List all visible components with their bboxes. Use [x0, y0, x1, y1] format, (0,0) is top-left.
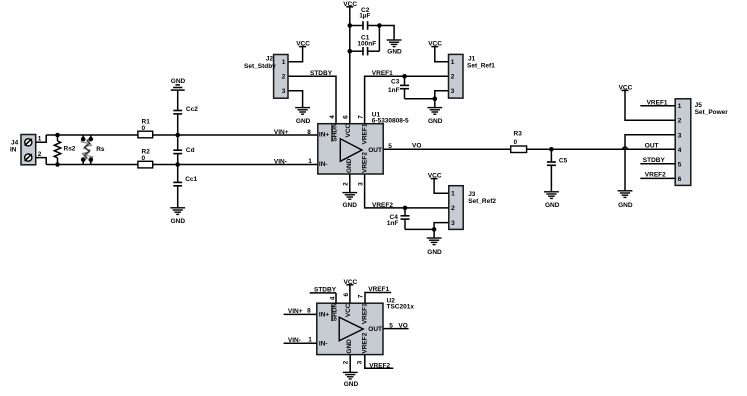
- svg-text:VREF2: VREF2: [645, 171, 666, 178]
- svg-text:1: 1: [678, 103, 682, 110]
- wire J4 pin 2: [36, 158, 47, 165]
- svg-text:2: 2: [678, 118, 682, 125]
- wire VCC to J1 pin1: [435, 47, 449, 62]
- svg-text:3: 3: [282, 88, 286, 95]
- node junction C5: [549, 147, 554, 152]
- node junction: [432, 227, 437, 232]
- wire VREF2 from U1 pin3 to J3 pin2: [365, 174, 449, 208]
- connector J4: [10, 135, 36, 165]
- svg-text:3: 3: [451, 88, 455, 95]
- svg-text:2: 2: [451, 74, 455, 81]
- svg-text:0: 0: [514, 139, 518, 146]
- wire to ground: [177, 186, 179, 208]
- capacitor C2: [350, 7, 380, 30]
- svg-text:VIN-: VIN-: [288, 337, 301, 344]
- ground U2: [343, 372, 359, 387]
- connector J1: [449, 54, 496, 98]
- svg-text:2: 2: [282, 74, 286, 81]
- svg-text:5: 5: [389, 322, 393, 329]
- svg-text:GND: GND: [545, 202, 560, 209]
- wire J5 pin3 to gnd: [625, 135, 675, 191]
- svg-text:6: 6: [343, 293, 350, 297]
- ground J1: [427, 108, 442, 125]
- svg-text:GND: GND: [343, 202, 358, 209]
- svg-text:2: 2: [343, 360, 350, 364]
- svg-text:GND: GND: [171, 218, 186, 225]
- svg-text:GND: GND: [346, 339, 353, 354]
- svg-text:6: 6: [343, 115, 350, 119]
- svg-text:Cd: Cd: [186, 147, 195, 154]
- wire U1 GND pin to ground: [349, 174, 351, 193]
- wire STDBY net J2 pin2 to U1 SHDN: [288, 76, 336, 123]
- resistor Rs2: [54, 133, 76, 167]
- wire J3 pin3: [434, 223, 449, 238]
- svg-text:GND: GND: [344, 381, 359, 388]
- wire J2 pin3 to gnd: [288, 91, 303, 108]
- svg-text:IN-: IN-: [319, 341, 328, 348]
- ground J3: [427, 238, 442, 256]
- svg-text:4: 4: [329, 296, 336, 300]
- wire VREF1 from U1 pin7 to J1 pin2: [365, 76, 449, 123]
- power VCC J3: [428, 173, 442, 180]
- power VCC top: [343, 1, 357, 8]
- node junction C3 top: [402, 74, 407, 79]
- svg-text:8: 8: [307, 129, 311, 136]
- power VCC J5: [619, 84, 633, 91]
- svg-text:VREF1: VREF1: [368, 286, 389, 293]
- ground C5: [544, 192, 560, 209]
- resistor R1: [138, 119, 153, 138]
- ground (C1/C2): [387, 40, 402, 55]
- svg-text:GND: GND: [346, 158, 353, 173]
- wire VCC down to U1 pin 6: [349, 7, 351, 124]
- svg-text:STDBY: STDBY: [310, 70, 333, 77]
- capacitor C1: [350, 34, 380, 55]
- wire Cc2 vertical: [177, 90, 179, 110]
- resistor Rs (4-terminal sense): [81, 135, 105, 165]
- svg-text:6-5330808-5: 6-5330808-5: [372, 118, 409, 125]
- svg-text:GND: GND: [296, 118, 311, 125]
- wire J4 pin 1: [36, 135, 47, 142]
- connector J2: [244, 55, 288, 99]
- svg-text:VREF1: VREF1: [372, 70, 393, 77]
- svg-text:J1: J1: [468, 56, 476, 63]
- wire U1 OUT to R3: [383, 148, 511, 150]
- connector J3: [449, 186, 497, 230]
- wire J5 pin1 VREF1: [640, 105, 675, 107]
- wire: [177, 154, 179, 183]
- node junction top wire: [175, 133, 180, 138]
- svg-text:IN+: IN+: [319, 132, 330, 139]
- wire VIN- bottom: [46, 164, 318, 166]
- svg-text:1: 1: [451, 59, 455, 66]
- wire U2 GND pin: [349, 355, 351, 373]
- svg-text:OUT: OUT: [645, 143, 659, 150]
- node junctions: [348, 23, 353, 28]
- svg-text:OUT: OUT: [368, 147, 382, 154]
- svg-text:OUT: OUT: [368, 326, 382, 333]
- net stub VO out: [383, 322, 409, 329]
- svg-text:VREF2: VREF2: [362, 152, 369, 173]
- svg-text:100nF: 100nF: [357, 41, 376, 48]
- ground U1: [342, 193, 357, 209]
- svg-text:4: 4: [329, 115, 336, 119]
- node junction: [433, 96, 438, 101]
- svg-text:STDBY: STDBY: [643, 157, 666, 164]
- svg-text:3: 3: [358, 182, 365, 186]
- svg-text:GND: GND: [618, 202, 633, 209]
- svg-text:GND: GND: [428, 118, 443, 125]
- svg-text:IN-: IN-: [319, 161, 328, 168]
- svg-text:1: 1: [451, 191, 455, 198]
- wire: [177, 114, 179, 150]
- svg-text:6: 6: [678, 176, 682, 183]
- capacitor C5: [547, 149, 568, 192]
- capacitor Cc2: [173, 106, 198, 114]
- net stub VIN-: [284, 336, 317, 343]
- svg-text:VREF1: VREF1: [647, 99, 668, 106]
- wire right vertical joining C1 C2: [378, 26, 380, 52]
- svg-text:1: 1: [308, 158, 312, 165]
- svg-text:1nF: 1nF: [388, 87, 400, 94]
- ground J2: [295, 108, 310, 125]
- svg-text:0: 0: [142, 125, 146, 132]
- op-amp U1: [318, 111, 409, 174]
- svg-text:Set_Ref2: Set_Ref2: [468, 198, 496, 205]
- svg-text:3: 3: [357, 360, 364, 364]
- svg-text:STDBY: STDBY: [314, 286, 337, 293]
- svg-text:VREF1: VREF1: [362, 303, 369, 324]
- svg-text:GND: GND: [171, 78, 186, 85]
- wire VCC to J2 pin1: [288, 47, 303, 62]
- resistor R3: [511, 131, 527, 153]
- svg-text:3: 3: [451, 220, 455, 227]
- svg-text:VO: VO: [398, 322, 407, 329]
- svg-text:J3: J3: [468, 191, 476, 198]
- svg-text:Rs2: Rs2: [64, 146, 76, 153]
- svg-text:1: 1: [38, 135, 42, 142]
- capacitor Cc1: [173, 176, 197, 186]
- svg-text:VCC: VCC: [345, 303, 352, 317]
- wire VIN+ top: [46, 134, 318, 136]
- svg-text:1: 1: [308, 336, 312, 343]
- svg-text:Cc1: Cc1: [185, 176, 197, 183]
- svg-text:1nF: 1nF: [387, 220, 399, 227]
- svg-text:VIN+: VIN+: [288, 308, 303, 315]
- wire VCC to J5 pin2: [625, 90, 675, 120]
- svg-text:GND: GND: [427, 249, 442, 256]
- svg-text:SHDN: SHDN: [332, 123, 339, 142]
- wire J1 pin3: [435, 91, 449, 108]
- svg-text:4: 4: [678, 147, 682, 154]
- capacitor C3: [388, 76, 409, 98]
- svg-text:IN: IN: [10, 147, 17, 154]
- net stub STDBY: [310, 286, 337, 303]
- svg-text:GND: GND: [387, 48, 402, 55]
- power VCC J1: [428, 41, 442, 48]
- svg-text:8: 8: [307, 308, 311, 315]
- svg-text:TSC201x: TSC201x: [387, 304, 415, 311]
- wire R3 to J5 pin4 with hop: [527, 148, 676, 150]
- wire J5 pin5 STDBY: [640, 163, 675, 165]
- svg-text:VIN+: VIN+: [274, 129, 289, 136]
- svg-text:2: 2: [38, 151, 42, 158]
- wire C3 bottom to J1 pin3 gnd: [405, 98, 435, 100]
- node junction C4 top: [403, 206, 408, 211]
- svg-text:R3: R3: [514, 131, 523, 138]
- svg-text:Rs: Rs: [96, 146, 105, 153]
- svg-text:SHDN: SHDN: [332, 302, 339, 321]
- svg-text:VO: VO: [412, 142, 421, 149]
- svg-text:Set_Power: Set_Power: [695, 109, 729, 116]
- wire J5 pin6 VREF2: [640, 177, 675, 179]
- power VCC J2: [296, 41, 310, 48]
- op-amp U2: [317, 297, 415, 354]
- svg-text:VREF1: VREF1: [362, 123, 369, 144]
- svg-text:2: 2: [451, 205, 455, 212]
- ground bottom left: [170, 208, 185, 225]
- ground top (above Cc2): [171, 78, 186, 90]
- svg-text:7: 7: [358, 115, 365, 119]
- svg-text:VIN-: VIN-: [274, 158, 287, 165]
- svg-text:J2: J2: [266, 55, 274, 62]
- wire to gnd: [379, 26, 394, 41]
- svg-text:Cc2: Cc2: [186, 106, 198, 113]
- capacitor Cd: [173, 147, 194, 154]
- net stub VREF2 bottom: [365, 355, 394, 370]
- svg-text:0: 0: [142, 155, 146, 162]
- svg-text:1µF: 1µF: [359, 13, 370, 20]
- wire C4 bottom to J3 pin3 gnd: [405, 228, 434, 230]
- net stub VREF1: [365, 286, 391, 303]
- power VCC U2: [344, 279, 358, 303]
- svg-text:7: 7: [358, 294, 365, 298]
- ground J5: [618, 191, 633, 209]
- svg-text:Set_Ref1: Set_Ref1: [467, 63, 495, 70]
- connector J5: [675, 99, 728, 186]
- wire VCC to J3 pin1: [434, 179, 449, 194]
- node junction bottom wire: [175, 162, 180, 167]
- svg-text:5: 5: [678, 161, 682, 168]
- capacitor C4: [387, 208, 410, 230]
- svg-text:IN+: IN+: [319, 312, 330, 319]
- svg-text:VCC: VCC: [345, 123, 352, 137]
- svg-text:VREF2: VREF2: [372, 202, 393, 209]
- svg-text:3: 3: [678, 132, 682, 139]
- svg-text:2: 2: [343, 182, 350, 186]
- svg-text:VREF2: VREF2: [362, 332, 369, 353]
- svg-text:Set_Stdby: Set_Stdby: [244, 63, 276, 70]
- resistor R2: [138, 149, 153, 168]
- svg-text:VREF2: VREF2: [369, 363, 390, 370]
- net stub VIN+: [284, 308, 317, 315]
- svg-text:C3: C3: [391, 79, 400, 86]
- svg-text:1: 1: [282, 59, 286, 66]
- svg-text:C5: C5: [559, 158, 568, 165]
